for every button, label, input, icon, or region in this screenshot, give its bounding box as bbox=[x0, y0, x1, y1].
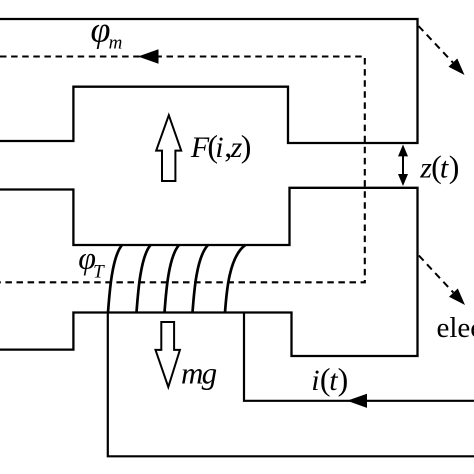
coil turn 2 bbox=[137, 245, 151, 313]
flux arrow phi_m bbox=[138, 49, 159, 63]
current arrow i(t) bbox=[347, 394, 367, 408]
flux loop dashed (phi_m / phi_T) bbox=[0, 57, 365, 283]
svg-text:mg: mg bbox=[181, 356, 217, 391]
svg-text:electr: electr bbox=[437, 312, 474, 344]
wire left (coil to bottom bus) bbox=[108, 313, 474, 457]
coil turn 1 bbox=[108, 245, 122, 313]
svg-text:i: i bbox=[311, 364, 319, 397]
coil turn 3 bbox=[165, 245, 180, 313]
gravity arrow mg bbox=[156, 322, 180, 387]
svg-text:): ) bbox=[338, 361, 349, 397]
label F(i,z) bbox=[190, 128, 251, 164]
svg-text:t: t bbox=[440, 152, 449, 185]
annotation arrow bottom (to electromagnet) bbox=[419, 256, 454, 293]
svg-text:m: m bbox=[109, 33, 123, 54]
svg-text:): ) bbox=[241, 128, 252, 164]
label z(t) bbox=[419, 149, 459, 185]
svg-text:T: T bbox=[93, 261, 105, 282]
svg-text:): ) bbox=[449, 149, 460, 185]
coil turn 4 bbox=[193, 245, 209, 313]
air-gap arrow z(t) bbox=[402, 153, 404, 177]
wire i(t) bbox=[244, 313, 474, 401]
annotation arrow top (to rail) bbox=[419, 26, 453, 63]
svg-text:φ: φ bbox=[91, 9, 111, 49]
svg-text:i: i bbox=[215, 131, 223, 164]
electromagnet core outline bbox=[0, 188, 418, 356]
coil turn 5 bbox=[225, 245, 245, 313]
rail (track) outline bbox=[0, 19, 418, 143]
force arrow F(i,z) bbox=[156, 115, 181, 181]
label i(t) bbox=[311, 361, 348, 397]
